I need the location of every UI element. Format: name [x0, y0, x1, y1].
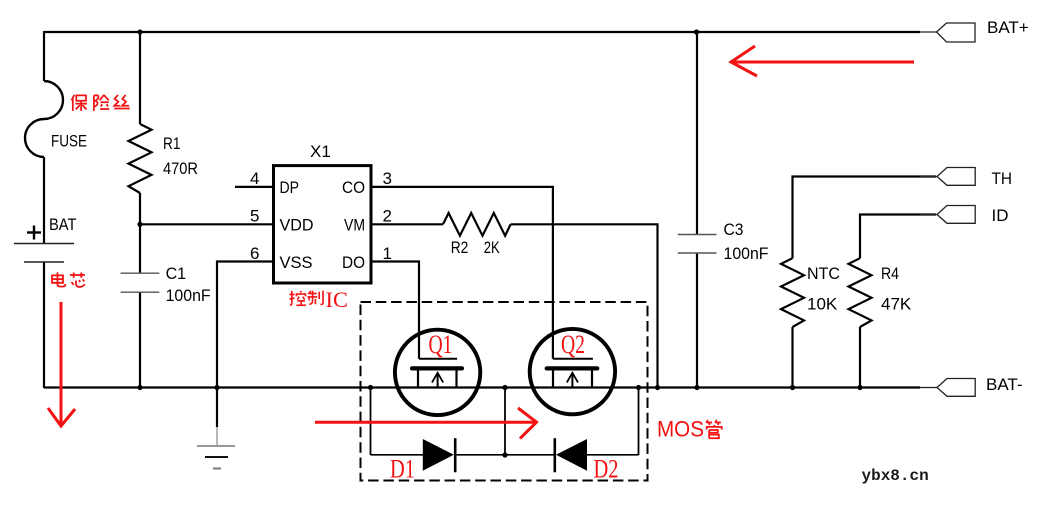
svg-text:2: 2 [383, 207, 392, 226]
svg-text:C3: C3 [724, 220, 744, 239]
svg-text:BAT+: BAT+ [987, 18, 1029, 37]
svg-text:CO: CO [342, 178, 365, 197]
svg-text:5: 5 [250, 207, 259, 226]
svg-text:6: 6 [250, 244, 259, 263]
svg-text:D1: D1 [390, 455, 415, 484]
svg-text:DO: DO [342, 253, 365, 272]
svg-text:100nF: 100nF [166, 286, 211, 305]
svg-text:4: 4 [250, 169, 259, 188]
svg-text:ID: ID [992, 206, 1009, 225]
svg-text:2K: 2K [484, 238, 501, 257]
svg-text:R1: R1 [163, 134, 181, 153]
svg-text:47K: 47K [881, 295, 912, 314]
svg-text:R2: R2 [451, 238, 469, 257]
svg-text:DP: DP [280, 178, 300, 197]
svg-text:FUSE: FUSE [51, 132, 87, 151]
svg-text:Q2: Q2 [561, 330, 585, 359]
svg-text:BAT: BAT [49, 215, 77, 234]
svg-text:ybx8.cn: ybx8.cn [862, 467, 929, 485]
svg-text:VM: VM [344, 216, 365, 235]
svg-text:NTC: NTC [807, 264, 840, 283]
svg-text:R4: R4 [881, 264, 899, 283]
svg-text:TH: TH [992, 169, 1013, 188]
svg-text:X1: X1 [310, 142, 331, 161]
svg-text:1: 1 [383, 244, 392, 263]
svg-text:MOS: MOS [657, 417, 704, 442]
svg-text:Q1: Q1 [429, 330, 453, 359]
svg-text:C1: C1 [166, 264, 187, 283]
svg-text:470R: 470R [163, 159, 198, 178]
svg-text:3: 3 [383, 169, 392, 188]
svg-text:D2: D2 [594, 455, 619, 484]
svg-text:10K: 10K [807, 295, 838, 314]
svg-text:BAT-: BAT- [986, 375, 1023, 394]
svg-text:VSS: VSS [280, 253, 313, 272]
svg-text:IC: IC [326, 287, 349, 312]
svg-text:100nF: 100nF [724, 244, 769, 263]
svg-text:VDD: VDD [280, 216, 314, 235]
